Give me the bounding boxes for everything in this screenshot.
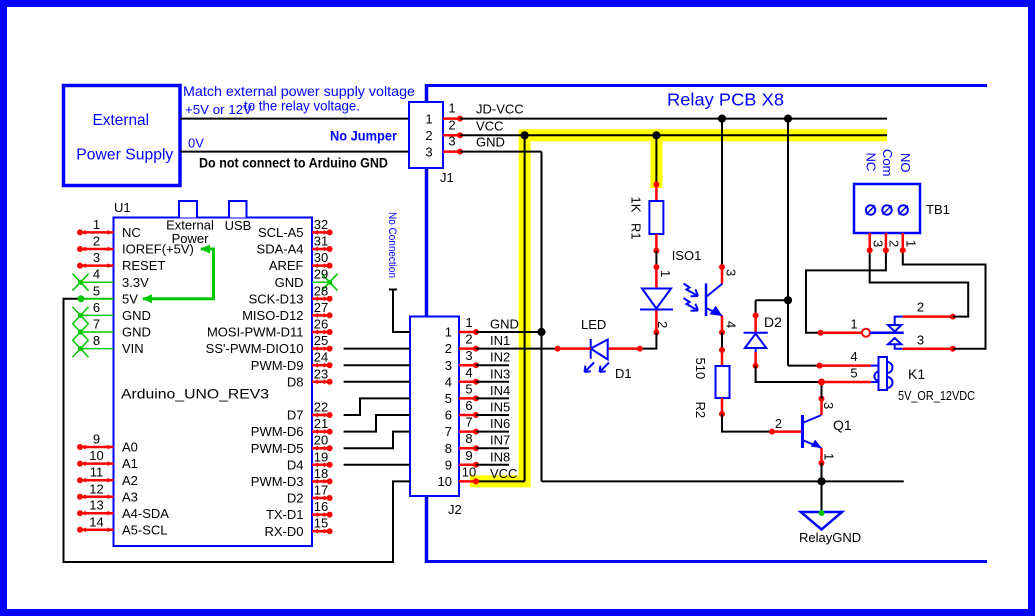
U1 pin 4 (3.3V) no-connect X (81, 281, 114, 283)
svg-text:A3: A3 (122, 489, 138, 504)
svg-text:R2: R2 (693, 402, 708, 419)
wire VCC net yellow highlight horizontal (519, 129, 887, 141)
svg-text:U1: U1 (114, 200, 131, 215)
wire K1 coil pin 5 (822, 381, 872, 384)
wire VCC net yellow highlight vertical to R1 (650, 130, 662, 189)
svg-text:Power Supply: Power Supply (76, 147, 173, 164)
svg-text:29: 29 (314, 267, 328, 282)
svg-text:MISO-D12: MISO-D12 (242, 308, 303, 323)
svg-text:No Connection: No Connection (386, 212, 398, 278)
svg-text:17: 17 (314, 483, 328, 498)
svg-text:27: 27 (314, 300, 328, 315)
wire R1 bottom to ISO1 LED anode (655, 234, 658, 251)
U1 pin 10 (A1) stub (80, 462, 114, 465)
svg-text:A5-SCL: A5-SCL (122, 522, 168, 537)
Arduino U1 box (114, 218, 313, 547)
svg-text:VIN: VIN (122, 341, 144, 356)
svg-text:4: 4 (724, 321, 739, 328)
svg-text:14: 14 (89, 514, 103, 529)
svg-text:Relay PCB X8: Relay PCB X8 (667, 90, 784, 110)
svg-text:28: 28 (314, 283, 328, 298)
svg-text:Do not connect to Arduino GND: Do not connect to Arduino GND (199, 156, 388, 171)
wire contact pin2 to TB1 pin3 (870, 250, 969, 316)
wire ISO1 emitter to R2 (721, 316, 724, 332)
wire VCC net yellow highlight horizontal at J2 pin10 (470, 475, 531, 487)
svg-text:2: 2 (445, 341, 452, 356)
svg-text:IOREF(+5V): IOREF(+5V) (122, 242, 194, 257)
svg-text:2: 2 (93, 234, 100, 249)
wire to RelayGND symbol (821, 481, 823, 512)
Relay PCB X8 left boundary spine segment J1 to J2 (425, 167, 429, 318)
svg-text:16: 16 (314, 499, 328, 514)
ISO1 light coupling arrows (684, 284, 699, 297)
Relay PCB X8 bottom boundary rail (425, 560, 987, 563)
transistor Q1 (801, 415, 804, 448)
U1 pin 7 (GND) no-connect X (81, 331, 114, 333)
svg-text:A2: A2 (122, 473, 138, 488)
svg-text:IN3: IN3 (490, 366, 510, 381)
svg-text:TX-D1: TX-D1 (266, 507, 304, 522)
svg-text:3: 3 (93, 250, 100, 265)
svg-text:7: 7 (465, 415, 472, 430)
wire R2 bottom to Q1 base (721, 398, 724, 414)
connector J1 box (409, 102, 443, 168)
green jumper wire IOREF to 5V (143, 249, 214, 299)
svg-text:J2: J2 (448, 502, 462, 517)
wire IN8 stub from J2 pin9 (476, 464, 509, 466)
U1 pin 17 (D2) stub (312, 497, 330, 500)
svg-text:2: 2 (448, 117, 455, 132)
J2 pin 6 stub (459, 414, 476, 417)
U1 pin 5 (5V) stub connected (81, 298, 114, 300)
svg-text:0V: 0V (188, 136, 204, 151)
svg-text:3.3V: 3.3V (122, 275, 149, 290)
svg-text:6: 6 (465, 398, 472, 413)
svg-text:3: 3 (448, 134, 455, 149)
relay contact common pin 1 wire (806, 250, 886, 332)
svg-text:5V_OR_12VDC: 5V_OR_12VDC (898, 389, 975, 403)
wire Arduino pin21 to J2 row6 with jog (344, 415, 410, 432)
svg-text:1K: 1K (629, 197, 644, 213)
U1 pin 24 (PWM-D9) stub (312, 364, 330, 367)
wire Q1 emitter down to GND (820, 448, 823, 463)
svg-text:D2: D2 (287, 491, 304, 506)
svg-text:1: 1 (465, 315, 472, 330)
no-connection tick above J2 (389, 289, 397, 291)
svg-text:D7: D7 (287, 408, 304, 423)
svg-text:PWM-D5: PWM-D5 (251, 441, 304, 456)
svg-text:USB: USB (225, 218, 252, 233)
wire GND from J1 pin3 going right (460, 151, 542, 153)
svg-text:Com: Com (880, 149, 895, 176)
svg-text:RelayGND: RelayGND (799, 530, 861, 545)
U1 pin 29 (GND) no-connect X (312, 281, 330, 283)
svg-text:GND: GND (476, 135, 505, 150)
wire JD-VCC down to D2 / relay coil (787, 119, 789, 366)
wire Arduino pin20 to J2 row7 with jog (344, 432, 410, 449)
wire D2 bottom to Q1 collector node (754, 352, 757, 366)
svg-text:1: 1 (850, 317, 857, 332)
J2 pin 4 stub (459, 381, 476, 384)
svg-text:1: 1 (822, 453, 837, 460)
J2 pin 9 stub (459, 464, 476, 467)
svg-text:1: 1 (93, 217, 100, 232)
svg-text:D8: D8 (287, 374, 304, 389)
svg-text:D1: D1 (615, 366, 632, 381)
svg-text:2: 2 (775, 416, 782, 431)
J1 pin 2 stub (443, 134, 460, 137)
svg-text:GND: GND (490, 317, 519, 332)
diode D2 (754, 316, 757, 333)
svg-text:5: 5 (445, 391, 452, 406)
relay contact open circle (862, 329, 870, 337)
wire IN1 red segment to D1 anode (558, 347, 591, 350)
svg-text:NC: NC (122, 225, 141, 240)
svg-text:RESET: RESET (122, 258, 165, 273)
J2 pin 1 stub (459, 331, 476, 334)
svg-text:K1: K1 (908, 366, 925, 382)
connector J2 box (410, 317, 459, 497)
contact pin 2 wire (NO) (903, 315, 953, 318)
svg-text:R1: R1 (629, 223, 644, 240)
svg-text:8: 8 (445, 441, 452, 456)
svg-text:510: 510 (693, 358, 708, 380)
U1 pin 14 (A5-SCL) stub (80, 529, 114, 532)
svg-text:GND: GND (122, 308, 151, 323)
junction VCC / J2 VCC branch (521, 131, 529, 139)
svg-text:5: 5 (465, 381, 472, 396)
svg-text:LED: LED (581, 317, 606, 332)
U1 top tab USB (229, 201, 247, 218)
svg-text:GND: GND (122, 325, 151, 340)
svg-text:+5V or 12V: +5V or 12V (185, 102, 252, 117)
wire K1 coil pin 4 (788, 365, 820, 367)
svg-text:10: 10 (438, 474, 452, 489)
svg-text:SDA-A4: SDA-A4 (257, 242, 304, 257)
svg-text:4: 4 (445, 374, 452, 389)
wire IN4 stub from J2 pin5 (476, 397, 509, 399)
svg-text:IN5: IN5 (490, 400, 510, 415)
svg-text:5: 5 (850, 366, 857, 381)
junction JD-VCC / ISO1 collector branch (718, 115, 726, 123)
wire Arduino 5V around bottom to J2 row10 (VCC) (64, 299, 411, 562)
svg-text:25: 25 (314, 333, 328, 348)
junction D2 / K1 pin5 / Q1 collector (818, 379, 825, 386)
svg-text:23: 23 (314, 366, 328, 381)
U1 pin 20 (PWM-D5) stub (312, 447, 330, 450)
U1 pin 28 (SCK-D13) stub (312, 298, 330, 301)
wire VCC rail (460, 134, 887, 136)
svg-text:SS'-PWM-DIO10: SS'-PWM-DIO10 (206, 341, 304, 356)
relay contact arm and contacts (870, 331, 904, 334)
svg-text:10: 10 (89, 448, 103, 463)
svg-text:A1: A1 (122, 456, 138, 471)
svg-text:VCC: VCC (490, 466, 517, 481)
svg-text:2: 2 (917, 300, 924, 315)
svg-text:11: 11 (90, 465, 104, 480)
svg-text:GND: GND (275, 275, 304, 290)
U1 pin 3 (RESET) stub (80, 264, 114, 267)
wire IN3 stub from J2 pin4 (476, 381, 509, 383)
Relay PCB X8 top boundary rail (425, 84, 987, 87)
U1 pin 27 (MISO-D12) stub (312, 314, 330, 317)
wire Arduino pin19 to J2 row9 (344, 464, 410, 466)
wire Arduino pin23 to J2 row4 (344, 381, 410, 383)
wire GND vertical down (541, 152, 543, 482)
svg-text:ISO1: ISO1 (672, 248, 702, 263)
J2 pin 3 stub (459, 364, 476, 367)
svg-text:No Jumper: No Jumper (330, 129, 398, 144)
wire contact pin3 to TB1 pin1 (903, 250, 986, 348)
Relay PCB X8 left boundary spine segment above J1 (425, 84, 429, 103)
svg-text:PWM-D9: PWM-D9 (251, 358, 304, 373)
svg-text:12: 12 (89, 481, 103, 496)
svg-text:26: 26 (314, 317, 328, 332)
svg-text:SCK-D13: SCK-D13 (249, 291, 304, 306)
wire GND from J2 pin1 to GND net (476, 331, 542, 333)
svg-text:21: 21 (314, 416, 328, 431)
svg-text:IN4: IN4 (490, 383, 510, 398)
svg-text:3: 3 (724, 269, 739, 276)
wire GND bottom horizontal (542, 480, 904, 482)
U1 pin 6 (GND) no-connect X (81, 314, 114, 316)
U1 pin 31 (SDA-A4) stub (312, 248, 330, 251)
U1 pin 21 (PWM-D6) stub (312, 430, 330, 433)
TB1 terminal circles (866, 205, 875, 214)
junction JD-VCC / D2 branch (784, 115, 792, 123)
svg-text:3: 3 (465, 348, 472, 363)
U1 pin 30 (AREF) stub (312, 264, 330, 267)
svg-text:4: 4 (465, 365, 472, 380)
svg-text:8: 8 (93, 333, 100, 348)
junction GND at J2 pin1 (537, 328, 545, 336)
svg-text:8: 8 (465, 431, 472, 446)
J2 pin 8 stub (459, 447, 476, 450)
svg-text:1: 1 (425, 112, 432, 127)
J2 pin 5 stub (459, 397, 476, 400)
U1 pin 1 (NC) stub (80, 231, 114, 234)
U1 pin 2 (IOREF(+5V)) stub (80, 248, 114, 251)
resistor R2 (716, 366, 730, 398)
svg-text:6: 6 (445, 408, 452, 423)
svg-text:D4: D4 (287, 457, 304, 472)
svg-text:NC: NC (864, 153, 879, 172)
svg-text:9: 9 (445, 457, 452, 472)
svg-text:32: 32 (314, 217, 328, 232)
wire IN2 stub from J2 pin3 (476, 364, 509, 366)
U1 pin 25 (SS'-PWM-DIO10) stub (312, 347, 330, 350)
svg-text:3: 3 (425, 144, 432, 159)
wire D2 top (756, 299, 788, 301)
svg-text:IN2: IN2 (490, 350, 510, 365)
resistor R1 chain from VCC (655, 135, 657, 184)
svg-text:5: 5 (93, 283, 100, 298)
wire Arduino pin22 to J2 row5 with jog (344, 398, 410, 415)
LED D1 (590, 339, 592, 359)
wire 0V from power supply to J1 pin3 (180, 151, 409, 153)
Relay PCB X8 left boundary spine segment below J2 (425, 495, 429, 563)
wire IN7 stub from J2 pin8 (476, 447, 509, 449)
wire Arduino pin24 to J2 row3 (344, 364, 410, 366)
svg-text:2: 2 (425, 128, 432, 143)
wire Arduino pin25 to J2 row2 (344, 348, 410, 350)
svg-text:7: 7 (445, 424, 452, 439)
svg-text:Q1: Q1 (833, 417, 852, 433)
svg-text:1: 1 (658, 270, 673, 277)
svg-text:4: 4 (850, 349, 857, 364)
svg-text:PWM-D6: PWM-D6 (251, 424, 304, 439)
svg-text:to the relay voltage.: to the relay voltage. (244, 98, 360, 114)
wire Q1 collector up (820, 399, 823, 415)
wire ISO1 LED cathode down-left to D1 (655, 311, 658, 333)
svg-text:9: 9 (93, 432, 100, 447)
svg-text:3: 3 (445, 358, 452, 373)
junction VCC / R1 branch (652, 131, 660, 139)
svg-text:J1: J1 (440, 170, 454, 185)
ISO1 internal LED (642, 288, 671, 290)
svg-text:IN8: IN8 (490, 449, 510, 464)
wire no-connection vertical to J2 pin1 row (393, 290, 410, 333)
svg-text:IN6: IN6 (490, 416, 510, 431)
wire IN6 stub from J2 pin7 (476, 431, 509, 433)
svg-text:1: 1 (448, 101, 455, 116)
J1 pin 1 stub (443, 117, 460, 120)
LED D1 emission arrows (585, 363, 595, 373)
U1 pin 8 (VIN) no-connect X (81, 348, 114, 350)
wire IN1 from J2 pin2 (476, 348, 558, 350)
junction Q1 emitter / GND / RelayGND (817, 477, 825, 485)
svg-text:2: 2 (887, 240, 902, 247)
svg-text:NO: NO (898, 153, 913, 173)
svg-text:10: 10 (462, 464, 476, 479)
resistor R1 (649, 201, 663, 234)
J1 pin 3 stub (443, 150, 460, 153)
svg-text:IN7: IN7 (490, 433, 510, 448)
svg-text:Arduino_UNO_REV3: Arduino_UNO_REV3 (121, 386, 269, 402)
U1 pin 11 (A2) stub (80, 479, 114, 482)
U1 pin 19 (D4) stub (312, 464, 330, 467)
svg-text:MOSI-PWM-D11: MOSI-PWM-D11 (207, 325, 304, 340)
svg-text:3: 3 (917, 333, 924, 348)
svg-text:18: 18 (314, 466, 328, 481)
J2 pin 7 stub (459, 430, 476, 433)
svg-text:AREF: AREF (269, 258, 304, 273)
U1 pin 22 (D7) stub (312, 414, 330, 417)
svg-text:31: 31 (314, 234, 328, 249)
U1 pin 12 (A3) stub (80, 496, 114, 499)
U1 top tab External Power (179, 201, 197, 218)
svg-text:VCC: VCC (476, 118, 503, 133)
svg-text:5V: 5V (122, 291, 138, 306)
svg-text:2: 2 (465, 332, 472, 347)
svg-text:19: 19 (314, 449, 328, 464)
ISO1 phototransistor (721, 267, 724, 284)
svg-text:7: 7 (93, 317, 100, 332)
wire JD-VCC rail (460, 118, 887, 120)
svg-text:JD-VCC: JD-VCC (476, 102, 524, 117)
wire +5V from power supply to J1 pin1 (180, 118, 409, 120)
svg-text:1: 1 (904, 240, 919, 247)
wire VCC net yellow highlight vertical to J2 pin10 (519, 130, 531, 488)
External Power Supply box (64, 86, 181, 186)
svg-text:24: 24 (314, 350, 328, 365)
U1 pin 9 (A0) stub (80, 446, 114, 449)
svg-text:9: 9 (465, 448, 472, 463)
J2 pin 2 stub (459, 347, 476, 350)
U1 pin 16 (TX-D1) stub (312, 513, 330, 516)
contact pin 3 wire (NC) (903, 347, 953, 350)
svg-text:PWM-D3: PWM-D3 (251, 474, 304, 489)
svg-text:22: 22 (314, 400, 328, 415)
svg-text:A4-SDA: A4-SDA (122, 506, 169, 521)
svg-text:External: External (93, 112, 150, 129)
U1 pin 13 (A4-SDA) stub (80, 512, 114, 515)
U1 pin 26 (MOSI-PWM-D11) stub (312, 331, 330, 334)
svg-text:30: 30 (314, 250, 328, 265)
wire JD-VCC down to ISO1 collector (721, 119, 723, 267)
svg-text:3: 3 (821, 402, 836, 409)
svg-text:D2: D2 (764, 314, 782, 330)
svg-text:15: 15 (314, 516, 328, 531)
svg-text:13: 13 (89, 498, 103, 513)
U1 pin 23 (D8) stub (312, 381, 330, 384)
svg-text:TB1: TB1 (926, 202, 950, 217)
svg-text:IN1: IN1 (490, 333, 510, 348)
relay coil K1 (879, 357, 888, 390)
J2 pin 10 stub (459, 480, 476, 483)
svg-text:SCL-A5: SCL-A5 (258, 225, 304, 240)
U1 pin 15 (RX-D0) stub (312, 530, 330, 533)
ground symbol RelayGND (801, 512, 842, 530)
TB1 pin stubs (868, 233, 871, 250)
wire IN5 stub from J2 pin6 (476, 414, 509, 416)
svg-text:4: 4 (93, 267, 100, 282)
wire VCC vertical down to J2 pin10 (524, 135, 526, 481)
svg-text:3: 3 (871, 240, 886, 247)
wire D1 cathode to ISO1 (608, 347, 640, 350)
junction JD-VCC / D2 top (784, 296, 792, 304)
svg-text:1: 1 (445, 325, 452, 340)
terminal block TB1 box (854, 184, 920, 233)
svg-text:6: 6 (93, 300, 100, 315)
U1 pin 18 (PWM-D3) stub (312, 480, 330, 483)
svg-text:A0: A0 (122, 440, 138, 455)
U1 pin 32 (SCL-A5) stub (312, 231, 330, 234)
svg-text:20: 20 (314, 433, 328, 448)
svg-text:RX-D0: RX-D0 (264, 524, 303, 539)
